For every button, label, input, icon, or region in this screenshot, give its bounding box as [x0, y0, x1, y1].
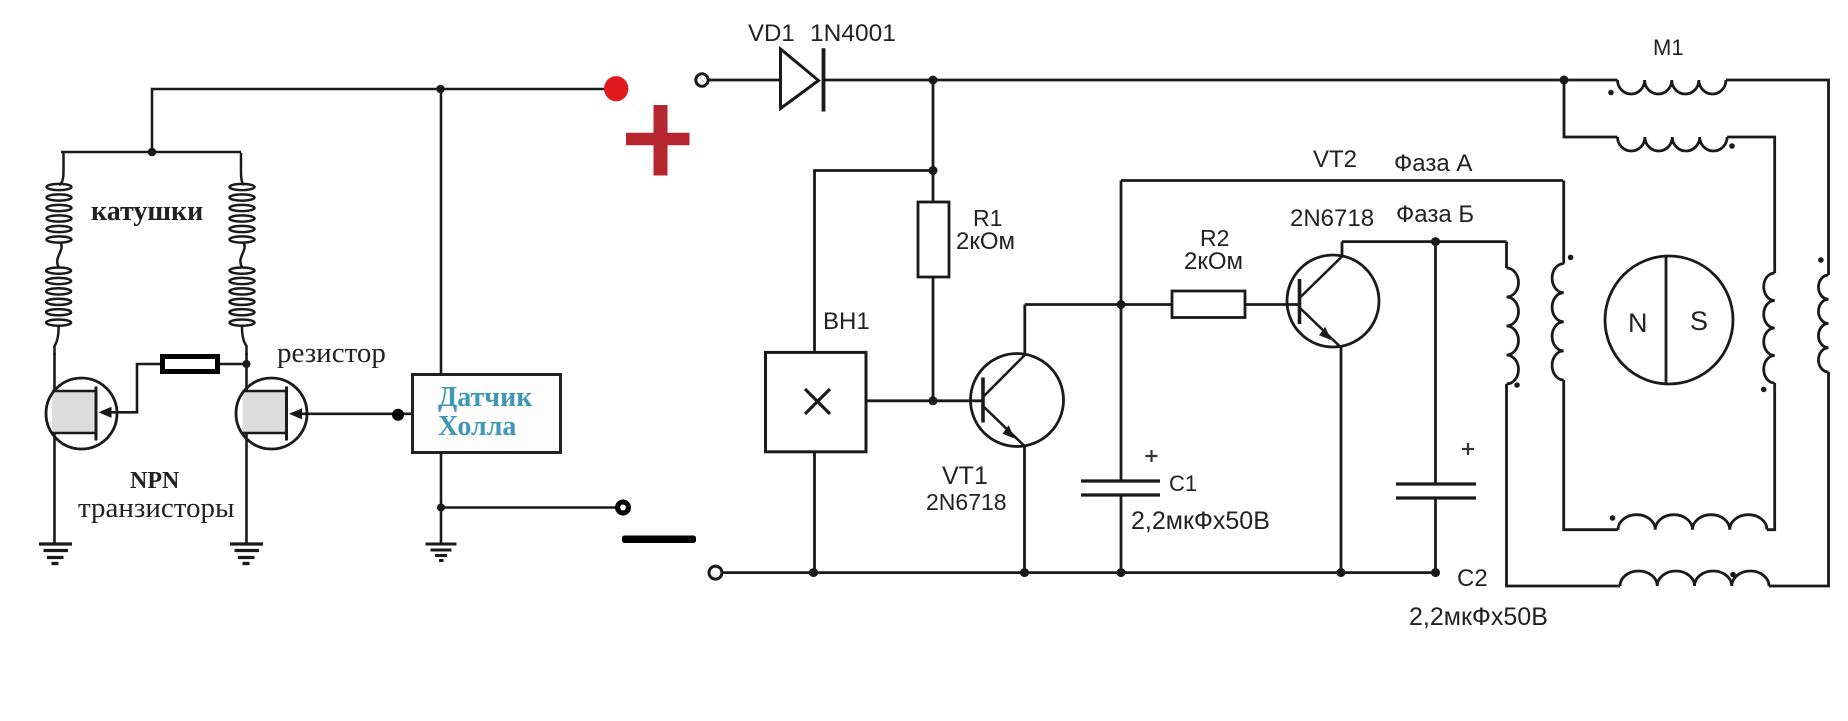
node junction C2 rail end [1431, 568, 1440, 577]
svg-text:катушки: катушки [91, 196, 203, 227]
wire phase A horizontal [1121, 179, 1563, 182]
svg-text:Фаза Б: Фаза Б [1396, 201, 1474, 228]
svg-text:N: N [1628, 308, 1648, 338]
node junction phase B C2 branch [1431, 237, 1440, 246]
resistor base coupling (резистор) [163, 357, 218, 372]
svg-text:транзисторы: транзисторы [78, 492, 235, 524]
wire C2 top lead [1434, 242, 1437, 483]
polarity dot right inner winding [1761, 387, 1767, 393]
svg-text:C1: C1 [1169, 471, 1197, 496]
hall sensor BH1 box [766, 352, 867, 451]
transistor VT2 [1287, 242, 1379, 348]
wire left inner top to phase A [1562, 181, 1565, 264]
wire rail down to R1 [932, 80, 935, 202]
node junction rail motor branch [1560, 76, 1569, 85]
rotor magnet N S [1605, 256, 1733, 384]
transistor Q1 (NPN left) [46, 378, 117, 449]
wire VT1 collector to R2 [1025, 303, 1172, 306]
svg-text:2,2мкФх50В: 2,2мкФх50В [1131, 507, 1270, 535]
wire hall sensor bottom to ground [440, 453, 443, 544]
capacitor C2 [1396, 484, 1476, 498]
svg-text:2N6718: 2N6718 [1290, 205, 1374, 232]
node junction hall bottom [437, 504, 445, 512]
svg-text:VT2: VT2 [1313, 146, 1357, 173]
svg-text:2кОм: 2кОм [1184, 248, 1243, 275]
transistor VT1 [971, 305, 1064, 447]
wire C1 bottom to rail [1120, 497, 1123, 573]
ground under Q2 [230, 544, 263, 564]
wire right inner down to bottom inner [1767, 383, 1775, 530]
node dot at hall sensor left [392, 409, 404, 421]
resistor R1 [918, 202, 949, 277]
svg-text:M1: M1 [1653, 35, 1684, 60]
svg-text:S: S [1690, 306, 1708, 336]
node junction resistor to L2 wire [243, 360, 251, 368]
resistor R2 [1172, 291, 1245, 318]
polarity dot left outer winding [1514, 382, 1520, 388]
hall sensor box Датчик Холла [413, 375, 561, 453]
svg-text:резистор: резистор [277, 337, 386, 369]
wire hall sensor output to Q2 base [293, 412, 412, 415]
polarity dot bottom outer winding [1730, 572, 1736, 578]
ground under hall sensor [426, 544, 457, 561]
svg-text:2кОм: 2кОм [956, 228, 1015, 255]
polarity dot top inner winding [1729, 143, 1735, 149]
wire coil top link [61, 151, 241, 154]
wire L1 bottom to Q1 to ground [53, 353, 56, 543]
node junction VT1 emitter rail [1020, 568, 1029, 577]
motor winding right outer [1818, 275, 1828, 372]
node junction collector phase A branch [1117, 300, 1126, 309]
svg-text:BH1: BH1 [823, 308, 870, 335]
motor winding left inner (bumps left) [1552, 264, 1564, 380]
node junction C1 rail [1117, 568, 1126, 577]
wire hall sensor top to rail [440, 89, 443, 375]
polarity dot top outer winding [1608, 90, 1614, 96]
svg-text:VD1: VD1 [748, 20, 795, 47]
polarity dot left inner winding [1568, 255, 1574, 261]
wire bottom rail [724, 571, 1436, 574]
wire phase B horizontal [1342, 240, 1507, 243]
node junction VT2 emitter rail [1337, 568, 1346, 577]
svg-text:Фаза А: Фаза А [1394, 150, 1472, 177]
svg-text:Датчик: Датчик [438, 382, 533, 413]
wire hall bottom to minus terminal [441, 506, 616, 509]
svg-text:2,2мкФх50В: 2,2мкФх50В [1409, 603, 1548, 631]
diode VD1 [781, 48, 824, 111]
wire resistor left lead to Q1 base [103, 364, 160, 412]
node junction BH1 branch [929, 166, 938, 175]
node junction top rail to hall wire [436, 85, 445, 94]
wire BH1 to VT1 base [866, 399, 982, 402]
svg-text:C2: C2 [1457, 565, 1488, 592]
arrow into Q1 base [99, 407, 112, 418]
wire L2 bottom to Q2 to ground [245, 353, 248, 543]
wire resistor right lead [220, 363, 247, 366]
node junction rail R1 branch [929, 76, 938, 85]
capacitor C1 [1081, 481, 1160, 495]
node junction coil link [148, 148, 157, 157]
polarity dot bottom inner winding [1610, 515, 1616, 521]
terminal bottom input [709, 566, 722, 579]
wire terminal to diode [709, 79, 781, 82]
wire C2 bottom to rail [1434, 500, 1437, 573]
inductor L1 left coil (катушки) [46, 153, 71, 355]
svg-text:Холла: Холла [438, 411, 516, 442]
inductor L2 right coil (катушки) [230, 153, 255, 355]
wire BH1 bottom to rail [813, 452, 816, 573]
svg-text:NPN: NPN [130, 468, 180, 494]
svg-text:1N4001: 1N4001 [810, 20, 896, 47]
red plus symbol [626, 105, 690, 176]
wire right outer down to bottom [1769, 372, 1829, 586]
plus mark C1 [1146, 450, 1158, 462]
motor winding top inner [1618, 137, 1728, 151]
wire R1 bottom to base wire [932, 277, 935, 401]
motor winding top outer (M1 phase B chain) [1618, 80, 1726, 94]
terminal plus input [696, 74, 708, 86]
plus mark C2 [1462, 443, 1474, 455]
wire R2 to VT2 base [1245, 303, 1299, 306]
motor winding bottom outer [1620, 571, 1769, 586]
wire top inner right corner down [1727, 137, 1775, 273]
red positive dot marker [604, 76, 628, 101]
polarity dot right outer winding [1818, 257, 1824, 263]
svg-text:2N6718: 2N6718 [926, 489, 1007, 515]
wire top rail left [152, 89, 611, 152]
transistor Q2 (NPN right) [236, 378, 307, 449]
wire VT2 emitter to rail [1340, 348, 1343, 573]
motor winding left outer (bumps right) [1507, 268, 1519, 384]
terminal minus output ring [618, 502, 629, 513]
wire bottom inner to left inner vertical [1564, 380, 1618, 530]
wire left outer top to phase B [1505, 242, 1508, 268]
svg-text:VT1: VT1 [942, 462, 988, 490]
wire bottom outer to left vertical [1507, 384, 1621, 586]
wire phase A vertical with C1 [1120, 181, 1123, 480]
motor winding bottom inner [1618, 515, 1767, 530]
wire top rail right corner down [1726, 80, 1829, 275]
wire top rail to motor [824, 79, 1618, 82]
wire VT1 emitter to rail [1023, 446, 1026, 573]
wire motor branch inner top [1564, 80, 1618, 137]
wire BH1 top branch [815, 171, 934, 353]
motor winding right inner [1764, 273, 1775, 383]
minus sign bar [622, 536, 696, 544]
ground under Q1 [39, 544, 72, 564]
arrow into Q2 base [289, 408, 302, 419]
node junction BH1 ground rail [809, 568, 818, 577]
node junction R1 base wire [929, 396, 938, 405]
